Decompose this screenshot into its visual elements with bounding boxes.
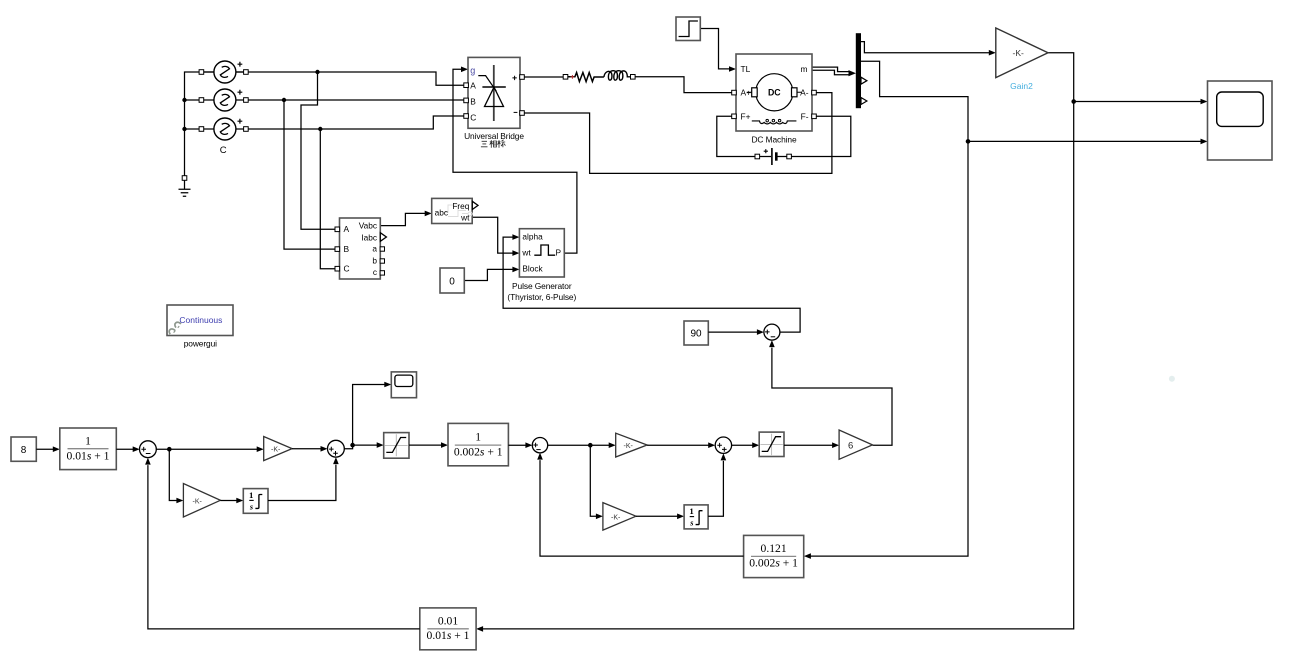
node bus-B junction — [182, 98, 186, 102]
svg-text:DC: DC — [768, 87, 781, 97]
wire measurement bus m to bus selector — [813, 69, 857, 77]
svg-text:0.002s + 1: 0.002s + 1 — [749, 557, 798, 570]
constant 90 block — [684, 321, 708, 345]
wire 90 to alpha summer — [708, 329, 764, 335]
svg-text:8: 8 — [21, 445, 27, 456]
wire PLL wt to pulse generator — [472, 217, 519, 256]
wire junction down to Ki current — [590, 445, 603, 519]
svg-text:Universal Bridge: Universal Bridge — [464, 131, 524, 141]
svg-text:c: c — [373, 267, 377, 277]
wire summer2 kink to junction — [344, 442, 383, 449]
svg-text:0: 0 — [449, 276, 455, 287]
wire bridge minus to DC machine A- — [522, 93, 832, 174]
svg-text:C: C — [344, 264, 350, 274]
svg-text:m: m — [801, 64, 808, 74]
gain Ki current — [603, 503, 636, 530]
svg-text:F-: F- — [801, 111, 809, 121]
gain Ki speed — [183, 484, 220, 518]
wire left DC bus from sources to ground — [185, 72, 214, 178]
wire TF4 to speed summer bottom — [145, 458, 420, 629]
scope2 small — [391, 372, 416, 398]
svg-text:C: C — [220, 145, 227, 156]
svg-text:alpha: alpha — [522, 232, 543, 242]
svg-text:Block: Block — [522, 264, 543, 274]
wire tap B to VI measurement — [284, 100, 335, 249]
node sat1-scope junction — [350, 443, 355, 448]
wire bus selector out1 to Gain2 — [861, 42, 996, 56]
wire junction to scope input 2 — [968, 139, 1208, 145]
transfer fcn 0.01/(0.01s+1) speed feedback — [420, 608, 476, 650]
label DC Machine — [751, 135, 797, 145]
svg-text:0.01s + 1: 0.01s + 1 — [427, 629, 470, 642]
svg-text:A: A — [344, 224, 350, 234]
VI block port squares — [335, 227, 385, 275]
bus selector — [856, 33, 867, 108]
svg-text:b: b — [372, 256, 377, 266]
wire 8 to reference TF — [36, 446, 60, 452]
svg-text:a: a — [372, 244, 377, 254]
integrator 1/s current — [684, 505, 708, 529]
saturation 1 — [384, 433, 409, 459]
wire junction up to scope2 — [353, 382, 392, 445]
svg-text:B: B — [344, 244, 350, 254]
constant 0 block — [440, 268, 464, 293]
svg-text:Pulse Generator: Pulse Generator — [512, 281, 572, 291]
step block (load torque) — [676, 17, 700, 41]
transfer fcn 1/(0.002s+1) — [448, 423, 508, 465]
DC machine block — [736, 54, 812, 131]
gain Gain2 — [996, 28, 1048, 91]
wire gain6 wrap to alpha summer bottom — [769, 340, 892, 445]
wire phase A to bridge — [236, 72, 464, 129]
svg-text:A: A — [470, 80, 476, 90]
summing junction alpha (90 - w6) — [764, 324, 780, 340]
svg-text:abc: abc — [435, 208, 448, 218]
wire Ki to integrator — [220, 498, 243, 504]
PLL block abc to Freq wt — [432, 198, 478, 223]
svg-text:wt: wt — [460, 212, 470, 222]
powergui block — [167, 305, 233, 336]
svg-text:s: s — [689, 519, 693, 528]
svg-text:1: 1 — [689, 506, 693, 516]
svg-text:-K-: -K- — [1013, 48, 1025, 58]
wire Kp to summer2 — [292, 446, 327, 452]
scope (2 inputs) — [1208, 81, 1273, 160]
svg-text:1: 1 — [475, 431, 481, 444]
AC voltage source C — [214, 118, 242, 156]
wire integrator2 to summer4 bottom — [708, 453, 726, 516]
svg-text:90: 90 — [690, 329, 702, 340]
series RLC branch (R + L) — [563, 71, 635, 82]
ground — [179, 176, 191, 197]
label Universal Bridge — [464, 131, 524, 141]
DC field battery source — [755, 148, 791, 165]
wire constant 0 to Block input — [464, 267, 519, 281]
svg-text:0.01: 0.01 — [438, 614, 458, 627]
wire bridge plus output to RLC branch — [522, 76, 563, 78]
wire speed summer to PI gains — [156, 446, 263, 452]
summing junction PI speed out — [328, 440, 345, 457]
AC voltage source A — [201, 61, 246, 83]
node Gain2-scope junction — [1071, 99, 1076, 104]
svg-text:Freq: Freq — [452, 201, 469, 211]
svg-text:DC Machine: DC Machine — [751, 135, 797, 145]
gain Kp speed — [264, 437, 292, 461]
svg-text:s: s — [249, 502, 253, 511]
wire TF3 to current summer bottom — [537, 453, 743, 556]
label powergui — [184, 338, 217, 348]
constant 8 block — [11, 437, 36, 461]
summing junction PI current out — [715, 437, 731, 453]
universal bridge block — [468, 57, 520, 128]
wire RLC to DC machine A+ — [635, 77, 732, 93]
bridge port squares — [464, 75, 525, 119]
svg-text:Gain2: Gain2 — [1010, 81, 1033, 91]
wire step to TL input — [700, 29, 736, 72]
svg-text:powergui: powergui — [184, 338, 217, 348]
wire Ki current to integrator2 — [636, 514, 684, 520]
gain 6 — [839, 430, 872, 459]
node bus-C junction — [182, 127, 186, 131]
svg-text:-K-: -K- — [624, 443, 634, 450]
wire Vabc to PLL — [380, 211, 431, 226]
svg-text:-K-: -K- — [193, 498, 203, 505]
wire integrator to summer2 bottom — [268, 457, 339, 500]
node current PI junction — [588, 443, 593, 448]
wire Gain2 output down to speed feedback TF — [476, 53, 1074, 632]
wire alpha loop from summer to pulse generator — [503, 234, 800, 332]
svg-text:(Thyristor, 6-Pulse): (Thyristor, 6-Pulse) — [507, 292, 576, 302]
svg-text:TL: TL — [741, 64, 751, 74]
svg-text:A-: A- — [800, 88, 809, 98]
summing junction speed loop — [140, 441, 157, 458]
label three-phase bridge (CJK drawn) — [481, 140, 506, 148]
DC machine port squares — [732, 90, 817, 118]
svg-text:B: B — [470, 97, 476, 107]
svg-text:g: g — [470, 65, 475, 75]
svg-text:wt: wt — [521, 247, 531, 257]
pulse generator block — [519, 229, 564, 277]
svg-text:Continuous: Continuous — [179, 315, 222, 325]
svg-text:-K-: -K- — [271, 447, 281, 454]
wire tap C to VI measurement — [320, 129, 335, 269]
summing junction current loop — [532, 438, 547, 453]
svg-text:Iabc: Iabc — [361, 233, 377, 243]
wire junction down to integral gain — [169, 449, 183, 503]
node phase C tap junction — [318, 127, 322, 131]
node phase A tap junction — [315, 70, 319, 74]
svg-text:0.121: 0.121 — [761, 542, 787, 555]
wire TF to speed summer — [116, 446, 139, 452]
three-phase VI measurement block — [340, 218, 387, 279]
node speed PI junction — [167, 447, 172, 452]
saturation 2 — [759, 432, 784, 456]
wire bus selector out2 down to current feedback TF — [804, 61, 968, 559]
wire TF2 to current summer — [508, 442, 532, 448]
svg-text:A+: A+ — [741, 88, 752, 98]
faint watermark dot — [1169, 376, 1175, 382]
svg-text:P: P — [555, 247, 561, 257]
wire Kp current to summer4 — [647, 442, 715, 448]
source port squares — [199, 70, 248, 132]
gain Kp current — [616, 433, 647, 457]
svg-text:0.002s + 1: 0.002s + 1 — [454, 445, 503, 458]
wire sat1 to TF2 — [409, 442, 448, 448]
svg-text:6: 6 — [848, 441, 853, 452]
transfer fcn 1/(0.01s+1) — [60, 428, 117, 470]
label Pulse Generator — [507, 281, 576, 302]
svg-text:C: C — [470, 112, 476, 122]
wire current summer to PI gains — [548, 442, 616, 448]
AC voltage source B — [214, 89, 242, 111]
node phase B tap junction — [282, 98, 286, 102]
integrator 1/s speed — [243, 489, 268, 514]
wire DC machine F+ to battery — [717, 116, 755, 156]
svg-text:F+: F+ — [741, 111, 751, 121]
wire tap A to VI measurement — [301, 72, 335, 229]
wire sat2 to gain6 — [784, 442, 839, 448]
transfer fcn 0.121/(0.002s+1) current feedback — [744, 535, 804, 577]
node out2-scope junction — [966, 139, 971, 144]
wire DC machine F- to battery — [791, 116, 851, 156]
svg-text:Vabc: Vabc — [359, 220, 377, 230]
svg-text:1: 1 — [249, 490, 253, 500]
svg-text:-K-: -K- — [611, 514, 621, 521]
svg-text:0.01s + 1: 0.01s + 1 — [67, 449, 110, 462]
wire pulse output P to bridge gate g — [453, 67, 577, 254]
wire junction to scope input 1 — [1074, 99, 1208, 105]
svg-text:1: 1 — [85, 435, 91, 448]
wire summer4 to saturation2 — [732, 442, 760, 448]
